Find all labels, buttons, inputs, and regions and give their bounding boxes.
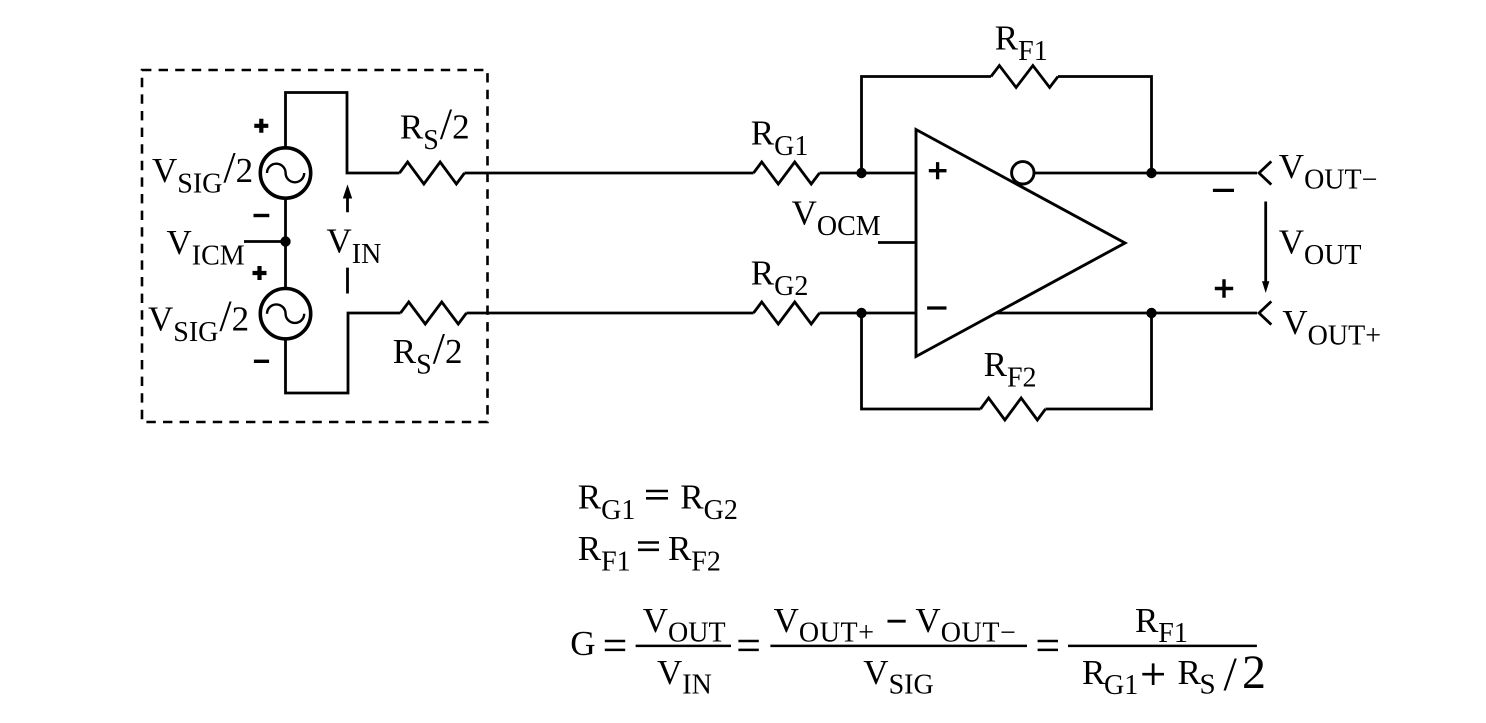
resistor RG1 xyxy=(754,162,820,184)
node VICM junction xyxy=(280,236,290,246)
terminal VOUT+ xyxy=(1259,301,1271,324)
svg-text:RG2: RG2 xyxy=(751,254,809,303)
polarity − of bottom source xyxy=(254,360,269,363)
svg-text:VOUT: VOUT xyxy=(643,601,726,649)
terminal VOUT− xyxy=(1259,161,1271,184)
resistor RF1 xyxy=(991,66,1058,88)
polarity − at top output xyxy=(1213,189,1234,192)
svg-text:RS/2: RS/2 xyxy=(400,100,470,157)
equation RG1 = RG2 xyxy=(578,478,738,527)
node − input junction xyxy=(856,308,866,318)
wire RF2 feedback right xyxy=(1046,313,1152,409)
polarity + at bottom output xyxy=(1215,279,1233,297)
wire RG2 to op-amp − input xyxy=(820,312,917,315)
svg-text:VOUT+: VOUT+ xyxy=(1282,303,1381,352)
polarity + of top source xyxy=(254,119,268,133)
svg-text:RF1: RF1 xyxy=(1135,601,1188,649)
op-amp + input mark xyxy=(929,162,947,179)
svg-text:VOCM: VOCM xyxy=(792,194,881,243)
svg-text:RG1: RG1 xyxy=(751,114,809,163)
wire top output xyxy=(1034,172,1257,175)
wire bottom output xyxy=(996,312,1257,315)
polarity + of bottom source xyxy=(253,266,267,280)
resistor RF2 xyxy=(981,398,1046,420)
arrow VIN xyxy=(343,184,352,293)
svg-text:G: G xyxy=(570,624,595,663)
svg-text:VSIG/2: VSIG/2 xyxy=(152,143,253,200)
svg-text:VIN: VIN xyxy=(327,222,382,271)
svg-text:VOUT+VOUT−: VOUT+VOUT− xyxy=(774,601,1017,649)
node bottom output junction xyxy=(1146,308,1156,318)
wire VICM stub xyxy=(244,240,286,243)
wire from bottom source down and over to RS/2 bottom xyxy=(286,313,401,393)
wire RF2 feedback left xyxy=(862,313,981,409)
equation gain G xyxy=(570,601,1266,701)
voltage source VSIG/2 bottom xyxy=(260,289,310,339)
node + input junction xyxy=(856,168,866,178)
equation RF1 = RF2 xyxy=(578,529,721,578)
arrow VOUT xyxy=(1262,202,1269,294)
wire RS/2 bottom to RG2 xyxy=(467,312,754,315)
op-amp − input mark xyxy=(927,306,946,309)
svg-text:VICM: VICM xyxy=(167,223,245,272)
svg-text:RG1RG2: RG1RG2 xyxy=(578,478,738,527)
resistor RS/2 top xyxy=(400,162,465,184)
op-amp U1 triangle xyxy=(916,130,1125,357)
voltage source VSIG/2 top xyxy=(260,148,310,198)
svg-text:VOUT: VOUT xyxy=(1279,223,1362,272)
svg-text:VIN: VIN xyxy=(657,653,712,701)
op-amp inverting output bubble xyxy=(1012,162,1034,184)
svg-text:RS/2: RS/2 xyxy=(393,324,463,381)
wire between sources (VICM net) xyxy=(284,198,287,290)
node top output junction xyxy=(1146,168,1156,178)
svg-text:RG1RS/2: RG1RS/2 xyxy=(1082,646,1266,701)
resistor RG2 xyxy=(754,302,820,324)
polarity − of top source xyxy=(254,214,270,217)
svg-text:RF1: RF1 xyxy=(995,19,1048,68)
source enclosure dashed box xyxy=(142,70,488,422)
wire RS/2 top to RG1 xyxy=(465,172,754,175)
wire RG1 to op-amp + input xyxy=(820,172,917,175)
svg-text:RF2: RF2 xyxy=(984,345,1037,394)
resistor RS/2 bottom xyxy=(401,302,467,324)
svg-text:RF1RF2: RF1RF2 xyxy=(578,529,721,578)
wire VOCM stub xyxy=(878,241,916,244)
svg-text:VSIG: VSIG xyxy=(863,653,933,701)
wire from top source up and over to RS/2 xyxy=(286,93,400,174)
wire RF1 feedback right xyxy=(1058,77,1152,174)
wire RF1 feedback left xyxy=(862,77,992,174)
svg-text:VOUT−: VOUT− xyxy=(1279,147,1378,196)
svg-text:VSIG/2: VSIG/2 xyxy=(148,292,249,349)
